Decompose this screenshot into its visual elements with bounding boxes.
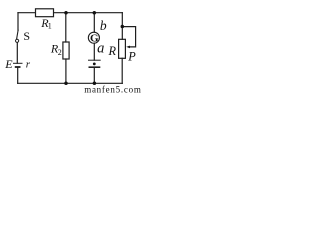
svg-text:a: a: [97, 41, 104, 57]
svg-text:b: b: [100, 18, 107, 33]
svg-text:S: S: [23, 29, 30, 43]
svg-text:E: E: [4, 57, 13, 71]
svg-text:manfen5.com: manfen5.com: [84, 85, 141, 95]
svg-text:r: r: [26, 59, 31, 71]
svg-text:2: 2: [58, 48, 62, 57]
svg-text:1: 1: [48, 21, 52, 30]
svg-text:R: R: [108, 44, 117, 58]
svg-text:P: P: [127, 50, 136, 64]
